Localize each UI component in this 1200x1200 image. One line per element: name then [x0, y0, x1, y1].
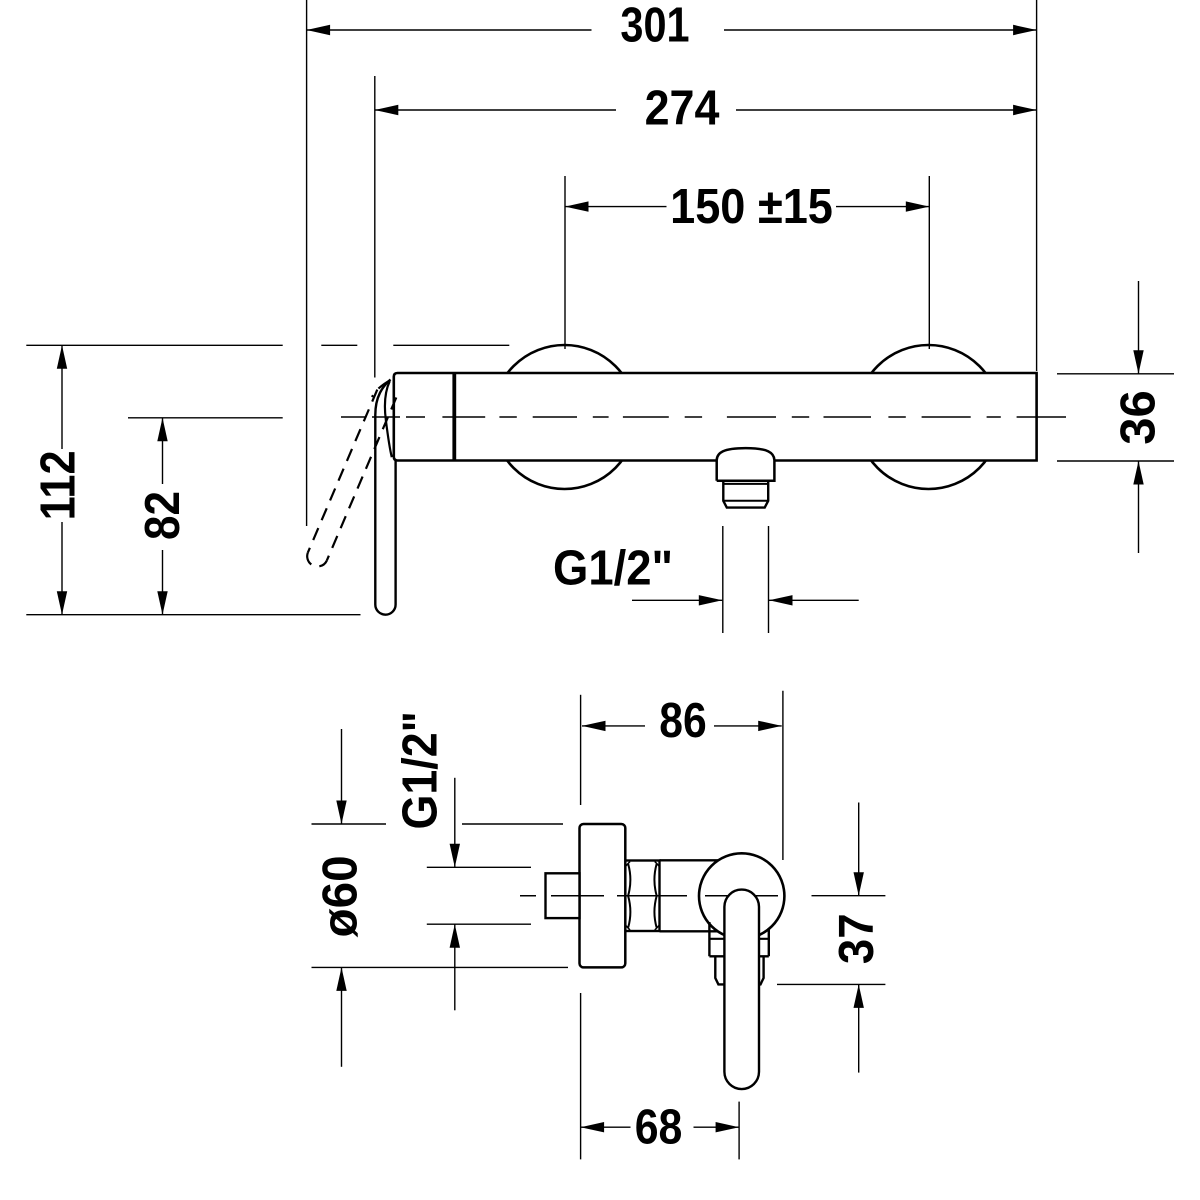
centerline (side) — [520, 895, 778, 897]
svg-text:G1/2": G1/2" — [553, 541, 673, 596]
escutcheon circle right — [857, 345, 1001, 489]
svg-text:ø60: ø60 — [313, 855, 368, 937]
dim G1/2 front extension lines — [722, 526, 724, 633]
dim 150 line — [565, 206, 667, 208]
svg-text:82: 82 — [135, 491, 190, 540]
dim G1/2 front lines — [632, 599, 722, 601]
escutcheon circle left — [493, 345, 637, 489]
svg-text:150 ±15: 150 ±15 — [670, 178, 833, 233]
outlet dome and neck (front) — [717, 448, 775, 481]
dim 37 line — [858, 803, 860, 896]
front view dimension arrows — [57, 25, 1144, 615]
dim ø60 line — [341, 729, 343, 824]
dim 36 line — [1138, 281, 1140, 374]
dim ø60 extension lines — [312, 823, 387, 825]
dim 112 line — [61, 345, 63, 449]
dim 68 line — [581, 1126, 631, 1128]
svg-text:37: 37 — [830, 913, 885, 964]
svg-text:36: 36 — [1112, 390, 1166, 445]
mixer body bar — [394, 373, 1037, 461]
svg-text:301: 301 — [620, 0, 689, 52]
dim 36 extension lines — [1057, 373, 1174, 375]
lever pivot cap arc — [385, 381, 392, 457]
hex nut — [625, 861, 659, 932]
svg-text:112: 112 — [30, 450, 85, 520]
dim G1/2 side line — [454, 778, 456, 868]
dim 274 extension line — [374, 76, 376, 378]
dim 150 extension lines — [564, 176, 566, 349]
svg-text:86: 86 — [659, 692, 706, 747]
inlet thread connector — [546, 873, 580, 918]
dim 274 line — [375, 109, 616, 111]
centerline (front) — [341, 416, 1066, 418]
outlet (side view) — [709, 922, 768, 956]
dim 301 line — [307, 29, 592, 31]
solid lever handle — [375, 380, 395, 615]
lever handle (side view) — [724, 890, 759, 1090]
dim 112 extension line top (circle tangent) — [26, 344, 282, 346]
dim 82 line — [162, 418, 164, 484]
dim G1/2 side extension lines — [427, 866, 531, 868]
svg-text:68: 68 — [635, 1099, 683, 1154]
cap/body joint thick divider — [452, 373, 456, 461]
dim 82 extension line — [128, 417, 283, 419]
outlet thread (front) — [723, 481, 768, 508]
dim 86 extension lines — [580, 695, 582, 805]
dim 301 extension lines — [306, 0, 308, 526]
connecting cylinder — [660, 860, 719, 931]
dim 112 extension line bottom — [26, 614, 360, 616]
svg-text:274: 274 — [645, 80, 720, 135]
svg-text:G1/2": G1/2" — [392, 711, 447, 829]
side view dimension arrows — [336, 721, 864, 1133]
dim 86 line — [582, 725, 645, 727]
dim 37 extension lines — [812, 895, 886, 897]
dashed alternate lever position — [307, 381, 396, 566]
wall flange — [580, 824, 626, 967]
valve body circle — [699, 853, 784, 938]
dim 68 extension lines — [580, 993, 582, 1159]
